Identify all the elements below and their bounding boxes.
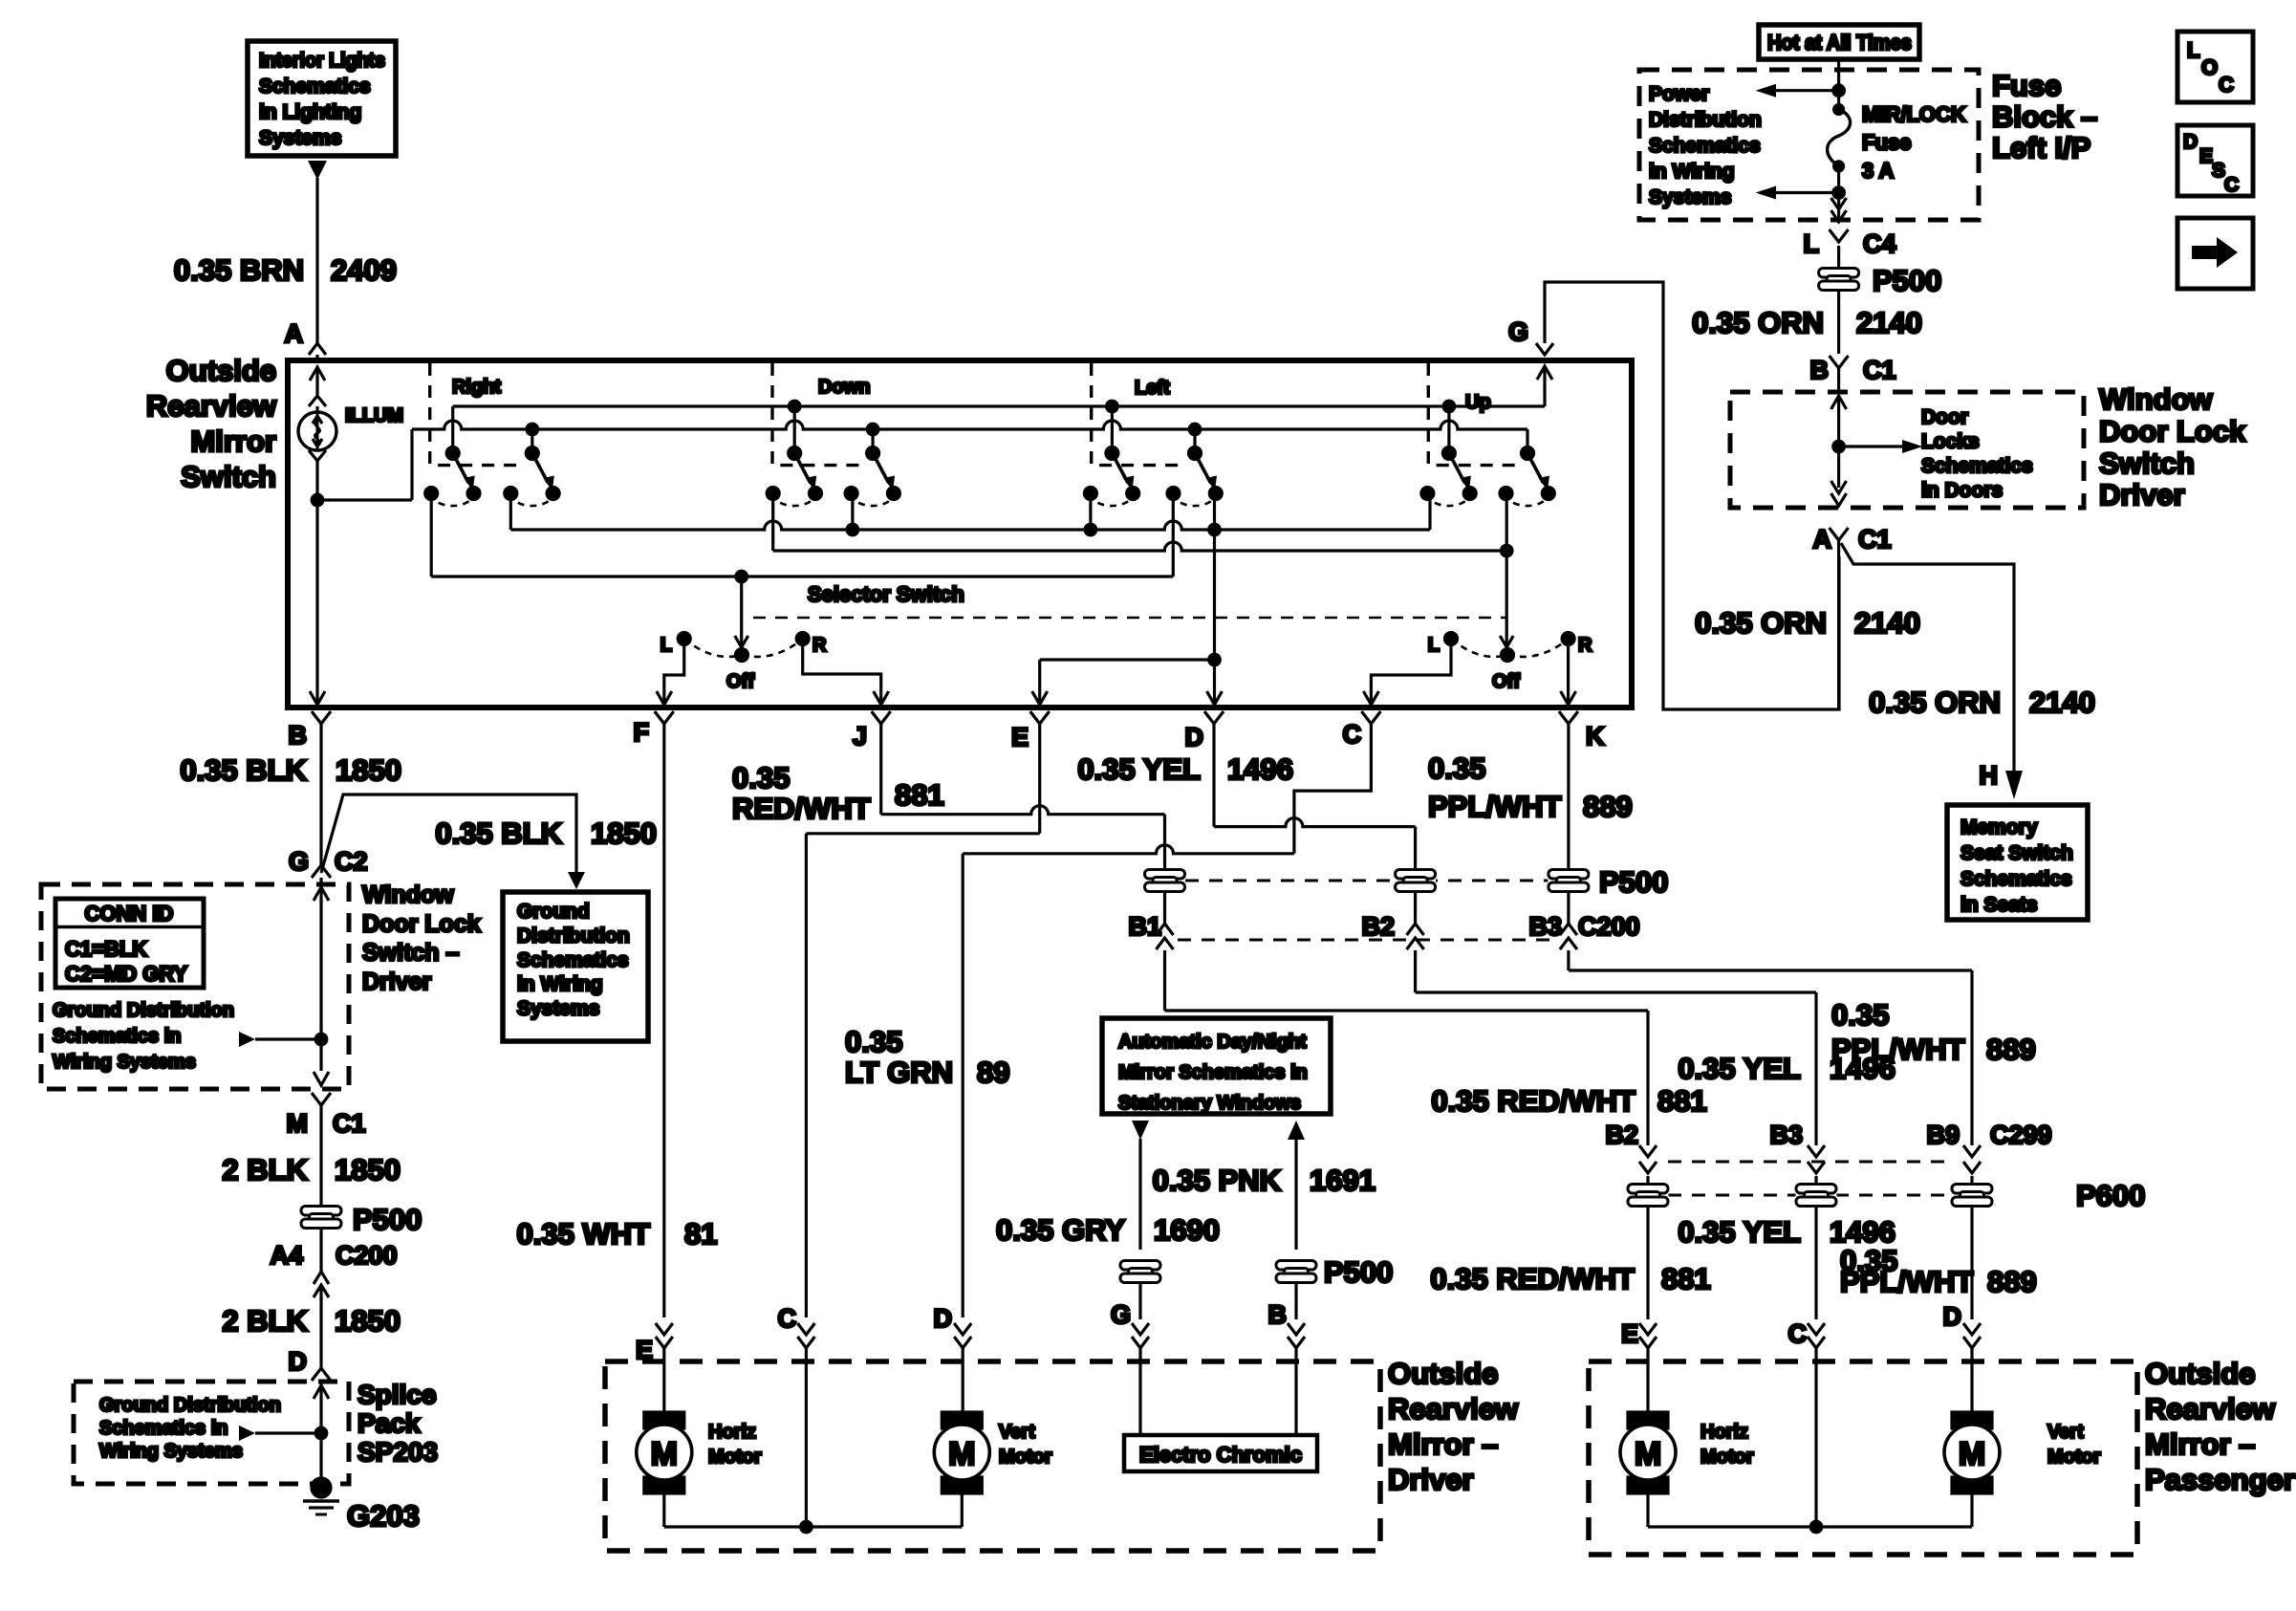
svg-text:C1: C1 (1858, 525, 1892, 554)
svg-text:PPL/WHT: PPL/WHT (1840, 1265, 1974, 1298)
svg-text:Left: Left (1135, 378, 1170, 399)
window door lock switch driver dashed box (left) (41, 884, 349, 1089)
svg-text:E: E (1011, 723, 1029, 751)
outside rearview mirror driver dashed box (605, 1361, 1380, 1551)
svg-text:0.35 YEL: 0.35 YEL (1678, 1052, 1801, 1085)
wire 0.35 PPL/WHT 889 (pin K to C200 B3) (1428, 724, 1972, 970)
svg-text:2140: 2140 (1856, 306, 1922, 339)
svg-text:Memory: Memory (1960, 816, 2038, 838)
svg-text:in Doors: in Doors (1921, 480, 2003, 502)
svg-text:Off: Off (726, 671, 754, 692)
wire RED/WHT 881 to C299 B2 (1430, 1011, 1710, 1412)
svg-text:Door: Door (1921, 406, 1968, 428)
switch Up-1 (1421, 406, 1476, 506)
svg-text:C1: C1 (333, 1109, 366, 1138)
selector left common (735, 577, 748, 647)
svg-text:D: D (1185, 723, 1204, 751)
svg-text:H: H (1980, 761, 1999, 790)
svg-text:in Lighting: in Lighting (259, 101, 361, 123)
Right section dashed border (430, 363, 516, 466)
svg-text:1850: 1850 (591, 816, 657, 850)
pin D (1185, 711, 1224, 751)
svg-text:in Seats: in Seats (1960, 894, 2038, 916)
wire A C1 down and left to G (1837, 540, 1840, 709)
svg-text:0.35 YEL: 0.35 YEL (1077, 752, 1201, 786)
svg-text:B9: B9 (1926, 1121, 1960, 1149)
svg-text:P500: P500 (1873, 264, 1941, 297)
svg-text:Motor: Motor (1700, 1447, 1754, 1468)
svg-text:1850: 1850 (335, 1153, 401, 1186)
svg-text:A4: A4 (270, 1241, 303, 1270)
svg-text:Door Lock: Door Lock (2099, 414, 2246, 447)
wire bus PPL net (y=576) (773, 493, 1512, 556)
wire selector-right R to pin K (1561, 639, 1576, 707)
pin J (853, 711, 891, 751)
svg-text:Ground: Ground (517, 901, 590, 923)
svg-text:889: 889 (1986, 1033, 2036, 1066)
LOC icon box (2177, 32, 2253, 102)
svg-text:L: L (1804, 229, 1820, 258)
svg-text:J: J (853, 722, 867, 751)
svg-text:Rearview: Rearview (1388, 1392, 1519, 1426)
svg-text:0.35: 0.35 (845, 1025, 902, 1058)
node G C2 (289, 847, 368, 884)
svg-text:881: 881 (1657, 1084, 1707, 1118)
svg-text:C: C (2219, 73, 2234, 97)
svg-text:C2: C2 (335, 847, 368, 876)
passenger mirror internal bus (1648, 1493, 1972, 1533)
outside rearview mirror passenger dashed box (1589, 1361, 2137, 1555)
svg-text:Off: Off (1492, 671, 1520, 692)
pin G and wire to door lock switch A C1 (1508, 282, 1839, 709)
svg-text:Driver: Driver (2099, 478, 2185, 512)
svg-text:0.35: 0.35 (1831, 998, 1889, 1032)
svg-text:S: S (2212, 160, 2225, 182)
svg-text:Systems: Systems (1649, 186, 1731, 208)
svg-text:B3: B3 (1769, 1121, 1803, 1149)
svg-text:Switch: Switch (2099, 446, 2195, 480)
interior lights schematics box (248, 41, 396, 156)
svg-text:B3: B3 (1528, 912, 1562, 941)
svg-text:Mirror Schematics in: Mirror Schematics in (1118, 1062, 1308, 1083)
svg-text:Left I/P: Left I/P (1992, 131, 2090, 164)
svg-text:Schematics: Schematics (1960, 868, 2072, 890)
svg-text:Window: Window (2099, 382, 2213, 416)
Down section dashed border (772, 363, 868, 466)
CONN ID table (55, 899, 204, 988)
svg-text:C: C (2224, 174, 2239, 196)
svg-text:0.35 BLK: 0.35 BLK (180, 753, 307, 787)
svg-text:Ground Distribution: Ground Distribution (53, 1000, 234, 1021)
wire selector-left R to pin J (803, 639, 889, 707)
door locks dashed box (1730, 392, 2084, 508)
node A (switch pin A) (285, 319, 327, 360)
svg-text:Window: Window (362, 882, 454, 908)
svg-text:L: L (661, 635, 672, 656)
motor horiz (passenger) (1620, 1412, 1754, 1493)
svg-text:Systems: Systems (517, 998, 599, 1020)
svg-text:C: C (1788, 1319, 1808, 1348)
svg-text:Motor: Motor (999, 1447, 1052, 1468)
svg-text:B: B (289, 721, 308, 750)
svg-text:Up: Up (1465, 392, 1491, 413)
svg-text:Seat Switch: Seat Switch (1960, 842, 2073, 864)
svg-text:Fuse: Fuse (1992, 69, 2061, 102)
switch Up-2 (1500, 447, 1554, 507)
svg-text:0.35 ORN: 0.35 ORN (1869, 686, 2001, 719)
svg-text:D: D (1943, 1302, 1962, 1331)
svg-text:B: B (1810, 356, 1830, 384)
hot at all times box (1759, 25, 1919, 59)
svg-text:ILLUM: ILLUM (345, 405, 403, 426)
svg-text:81: 81 (684, 1217, 717, 1251)
svg-text:C200: C200 (336, 1241, 398, 1270)
switch Right-2 (505, 429, 559, 506)
wire 0.35 YEL 1496 (pin C to driver D entry) (934, 724, 1372, 1412)
svg-text:2 BLK: 2 BLK (222, 1304, 308, 1338)
svg-text:Passenger: Passenger (2145, 1463, 2295, 1496)
pin A inner arrow (310, 367, 325, 395)
svg-text:Interior Lights: Interior Lights (259, 50, 385, 72)
motor vert (driver) (934, 1412, 1051, 1493)
svg-text:A: A (1813, 525, 1832, 554)
svg-text:Rearview: Rearview (146, 389, 277, 423)
svg-text:Mirror –: Mirror – (1388, 1427, 1498, 1461)
svg-text:E: E (2199, 145, 2213, 167)
svg-text:C2=MD GRY: C2=MD GRY (65, 962, 187, 986)
outside rearview mirror switch box (288, 360, 1632, 708)
svg-text:B2: B2 (1361, 912, 1395, 941)
DESC icon box (2177, 125, 2253, 196)
svg-text:C4: C4 (1863, 229, 1896, 258)
splice pack dashed box (74, 1382, 349, 1484)
pin E (1011, 711, 1050, 751)
svg-text:881: 881 (1661, 1262, 1711, 1295)
svg-text:0.35 ORN: 0.35 ORN (1695, 606, 1827, 640)
automatic day/night mirror box (1102, 1018, 1331, 1114)
selector dashed line (753, 617, 1506, 620)
svg-text:Driver: Driver (362, 969, 432, 995)
wire PPL/WHT 889 to C299 B9 (1831, 970, 2145, 1412)
svg-text:Outside: Outside (1388, 1357, 1498, 1390)
svg-text:Horiz: Horiz (708, 1422, 756, 1443)
svg-text:0.35 PNK: 0.35 PNK (1153, 1164, 1282, 1197)
svg-text:889: 889 (1987, 1265, 2037, 1298)
svg-text:Ground Distribution: Ground Distribution (99, 1395, 281, 1416)
svg-text:2 BLK: 2 BLK (222, 1153, 308, 1186)
switch Left-2 (1167, 429, 1222, 506)
switch Left-1 (1084, 406, 1138, 506)
svg-text:O: O (2201, 55, 2218, 79)
svg-text:RED/WHT: RED/WHT (732, 792, 871, 825)
svg-text:Locks: Locks (1921, 431, 1980, 453)
wire selector-left L to pin F (657, 639, 684, 707)
svg-text:L: L (2187, 38, 2199, 62)
svg-text:M: M (651, 1436, 678, 1472)
svg-text:3 A: 3 A (1862, 159, 1895, 183)
svg-text:0.35 RED/WHT: 0.35 RED/WHT (1431, 1084, 1635, 1118)
node M C1 (287, 1093, 366, 1208)
C299 dashed connector lines (1668, 1162, 1952, 1195)
svg-text:Switch –: Switch – (362, 940, 460, 967)
switch Down-1 (767, 406, 821, 506)
Up section dashed border (1428, 363, 1521, 466)
electro chromic (1124, 1435, 1317, 1471)
ground G203 (303, 1478, 420, 1533)
svg-text:Right: Right (452, 377, 501, 398)
svg-text:P500: P500 (1324, 1255, 1393, 1289)
wire bus BLK/selector net (y=603) (431, 493, 1173, 582)
node A4 C200 (270, 1228, 397, 1367)
svg-text:Horiz: Horiz (1700, 1422, 1748, 1443)
svg-text:M: M (948, 1436, 975, 1472)
svg-text:B2: B2 (1605, 1121, 1638, 1149)
svg-text:2140: 2140 (2029, 686, 2095, 719)
svg-text:Schematics: Schematics (517, 949, 629, 971)
svg-text:B: B (1268, 1300, 1288, 1329)
svg-text:Schematics: Schematics (1921, 455, 2033, 477)
driver mirror internal bus (664, 1493, 963, 1533)
svg-text:C200: C200 (1578, 912, 1640, 941)
svg-text:Mirror –: Mirror – (2145, 1427, 2255, 1461)
svg-text:R: R (1578, 635, 1592, 656)
svg-text:MIR/LOCK: MIR/LOCK (1862, 102, 1966, 126)
svg-text:Fuse: Fuse (1862, 131, 1911, 155)
svg-text:CONN ID: CONN ID (85, 902, 174, 925)
svg-text:1850: 1850 (336, 753, 401, 787)
illum lamp ILLUM (298, 396, 336, 506)
svg-text:P500: P500 (1599, 865, 1668, 899)
svg-text:Schematics in: Schematics in (53, 1026, 182, 1047)
svg-text:Power: Power (1649, 83, 1709, 105)
svg-text:E: E (1621, 1319, 1638, 1348)
svg-text:Vert: Vert (999, 1422, 1035, 1443)
svg-text:0.35 ORN: 0.35 ORN (1692, 306, 1824, 339)
memory seat switch box (1947, 805, 2088, 920)
wire 0.35 PNK 1691 (day/night to driver B) (1153, 1121, 1394, 1435)
svg-text:G: G (1508, 317, 1528, 346)
wire 0.35 BLK 1850 branch to ground distribution (321, 795, 657, 889)
connector P500 (ground) (301, 1203, 422, 1236)
svg-text:Switch: Switch (181, 460, 276, 493)
svg-text:P500: P500 (353, 1203, 422, 1236)
svg-text:Automatic Day/Night: Automatic Day/Night (1118, 1032, 1307, 1053)
arrow icon box (2177, 218, 2253, 289)
wire from ILLUM junction to pivot feed bus (317, 429, 412, 500)
svg-text:Schematics: Schematics (1649, 135, 1761, 157)
svg-text:in Wiring: in Wiring (517, 973, 603, 995)
svg-text:C: C (1343, 720, 1362, 749)
svg-text:Wiring Systems: Wiring Systems (53, 1052, 196, 1073)
svg-text:0.35: 0.35 (1428, 751, 1485, 785)
section labels (345, 377, 1491, 426)
wire 2 BLK 1850 (lower) (222, 1304, 401, 1338)
svg-text:0.35 BRN: 0.35 BRN (174, 253, 304, 287)
svg-text:Splice: Splice (357, 1380, 436, 1409)
pin B (289, 711, 332, 750)
wire 0.35 ORN 2140 to memory seat (H) (1695, 543, 2095, 799)
svg-text:1496: 1496 (1227, 752, 1293, 786)
svg-text:in Wiring: in Wiring (1649, 161, 1735, 183)
wire to pins E and D (1032, 530, 1223, 707)
svg-text:Motor: Motor (708, 1447, 762, 1468)
switch Down-2 (845, 429, 899, 506)
switch Right-1 (425, 406, 480, 506)
svg-text:M: M (1959, 1436, 1985, 1472)
svg-text:Stationary Windows: Stationary Windows (1118, 1093, 1301, 1114)
wire 2 BLK 1850 (upper) (222, 1153, 401, 1186)
motor horiz (driver) (637, 1412, 762, 1493)
svg-text:D: D (934, 1304, 953, 1333)
svg-text:Motor: Motor (2047, 1447, 2101, 1468)
Left section dashed border (1092, 363, 1187, 466)
switch title (146, 354, 277, 493)
svg-text:Wiring Systems: Wiring Systems (99, 1441, 243, 1462)
wire 0.35 ORN 2140 label (upper) (1692, 306, 1922, 339)
motor vert (passenger) (1944, 1412, 2101, 1493)
svg-text:0.35 WHT: 0.35 WHT (516, 1217, 650, 1251)
fuse block dashed box (1639, 70, 1979, 220)
wire second bus (ILLUM net) (412, 421, 1527, 453)
svg-text:F: F (634, 718, 650, 747)
selector right contacts L/Off/R (1428, 633, 1592, 693)
wire hot feed (1756, 59, 1845, 110)
wire top bus (G net) (453, 401, 1545, 412)
svg-text:0.35 YEL: 0.35 YEL (1678, 1215, 1801, 1249)
svg-text:Selector Switch: Selector Switch (808, 582, 964, 606)
svg-text:Vert: Vert (2047, 1422, 2084, 1443)
svg-text:0.35 RED/WHT: 0.35 RED/WHT (1430, 1262, 1635, 1295)
wire pin B inner (ILLUM return to pin B) (310, 500, 325, 707)
svg-text:Outside: Outside (2145, 1357, 2255, 1390)
svg-text:2140: 2140 (1854, 606, 1920, 640)
svg-text:Outside: Outside (166, 354, 276, 387)
svg-text:Rearview: Rearview (2145, 1392, 2276, 1426)
svg-text:M: M (287, 1109, 309, 1138)
svg-text:C299: C299 (1990, 1121, 2052, 1149)
wire 0.35 BLK 1850 pin B (180, 724, 401, 865)
svg-text:Hot at All Times: Hot at All Times (1767, 31, 1912, 54)
wire splice SP203 (239, 1385, 329, 1484)
svg-text:Pack: Pack (357, 1408, 421, 1438)
svg-text:Down: Down (818, 377, 870, 398)
wire 0.35 YEL 1496 (pin D to C200 B2) (1077, 724, 1816, 992)
svg-text:G: G (1111, 1300, 1131, 1329)
svg-text:Driver: Driver (1388, 1463, 1474, 1496)
svg-text:G203: G203 (347, 1499, 420, 1533)
svg-text:2409: 2409 (331, 253, 397, 287)
selector left contacts L/Off/R (661, 633, 827, 693)
wire bus YEL net (y=554) (510, 493, 1430, 535)
wire B inside window box (239, 887, 329, 1085)
svg-text:LT GRN: LT GRN (845, 1056, 953, 1089)
svg-text:PPL/WHT: PPL/WHT (1831, 1033, 1965, 1066)
svg-text:89: 89 (977, 1056, 1009, 1089)
svg-text:0.35: 0.35 (732, 761, 790, 795)
svg-text:K: K (1586, 722, 1605, 751)
svg-text:P600: P600 (2076, 1179, 2145, 1212)
svg-text:A: A (285, 319, 304, 348)
svg-text:Distribution: Distribution (517, 925, 630, 947)
wire YEL 1496 to C299 B3 (1678, 992, 1895, 1527)
svg-text:0.35 GRY: 0.35 GRY (996, 1213, 1125, 1247)
node D (splice feed) (289, 1347, 332, 1384)
selector right common (1500, 551, 1513, 647)
svg-text:M: M (1635, 1436, 1661, 1472)
wire 0.35 WHT 81 (pin F to driver horiz motor) (516, 724, 717, 1412)
svg-text:L: L (1428, 635, 1440, 656)
wire 0.35 BRN 2409 from interior lights to switch pin A (174, 161, 397, 346)
wire through door lock switch (1831, 396, 1923, 506)
svg-text:Mirror: Mirror (190, 425, 276, 458)
svg-text:R: R (812, 635, 827, 656)
svg-text:0.35 BLK: 0.35 BLK (435, 816, 562, 850)
svg-text:1691: 1691 (1310, 1164, 1375, 1197)
svg-text:C1: C1 (1863, 356, 1896, 384)
svg-text:1690: 1690 (1154, 1213, 1220, 1247)
wire selector-right L to pin C (1363, 639, 1451, 707)
pin F (634, 711, 674, 747)
svg-text:Schematics in: Schematics in (99, 1418, 228, 1439)
wire 0.35 LT GRN 89 (pin E to driver vert... C entry) (778, 724, 1040, 1527)
svg-text:Systems: Systems (259, 127, 341, 149)
node L C4 (1804, 229, 1896, 258)
svg-text:881: 881 (895, 778, 944, 812)
svg-text:C: C (778, 1304, 797, 1333)
svg-text:Distribution: Distribution (1649, 109, 1762, 131)
ground distribution schematics box (solid) (503, 892, 648, 1041)
wire fuse output (1756, 166, 1847, 222)
connector P500 (fuse feed) (1818, 246, 1941, 354)
wire 0.35 RED/WHT 881 (pin J to C200 B1) (732, 724, 1648, 1011)
node B C1 (1810, 356, 1896, 392)
svg-text:PPL/WHT: PPL/WHT (1428, 790, 1562, 823)
svg-text:1850: 1850 (335, 1304, 401, 1338)
svg-text:889: 889 (1583, 790, 1633, 823)
svg-text:C1=BLK: C1=BLK (65, 937, 147, 961)
svg-text:Block –: Block – (1992, 100, 2097, 134)
svg-text:B1: B1 (1128, 912, 1161, 941)
svg-text:D: D (2183, 131, 2198, 153)
svg-text:D: D (289, 1347, 308, 1376)
fuse MIR/LOCK 3A (1828, 102, 1966, 183)
svg-text:SP203: SP203 (357, 1437, 438, 1467)
svg-text:Electro Chromic: Electro Chromic (1139, 1443, 1302, 1467)
pin K (1559, 711, 1605, 751)
svg-text:Schematics: Schematics (259, 76, 371, 98)
C200 dashed connector lines (1178, 881, 1555, 940)
node A C1 (1813, 525, 1892, 554)
svg-text:G: G (289, 847, 309, 876)
svg-text:Door Lock: Door Lock (362, 910, 481, 937)
wire 0.35 GRY 1690 (day/night to driver G) (996, 1121, 1220, 1435)
pin C (1343, 711, 1381, 749)
